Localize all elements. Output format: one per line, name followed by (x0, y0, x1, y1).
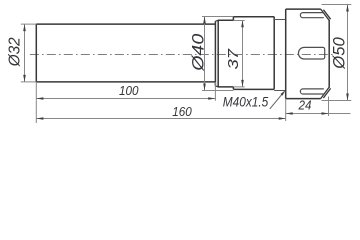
svg-text:Ø32: Ø32 (7, 37, 24, 67)
svg-text:Ø50: Ø50 (331, 36, 349, 69)
nut middle scallop (298, 47, 324, 59)
nut bottom scallop (300, 89, 323, 94)
dim 100 extension lines (36, 82, 215, 101)
dim Ø32 extension lines (21, 24, 37, 82)
dim Ø32 arrows (23, 24, 26, 82)
dim 24 extension line right (328, 97, 330, 117)
thread leader line (270, 92, 284, 109)
dim 100 line (36, 98, 215, 100)
nut top chamfer (321, 9, 331, 20)
dim 37 extension lines (233, 21, 244, 87)
dim 100 arrows (36, 97, 215, 100)
thread section Ø40 outline (233, 17, 274, 90)
svg-text:160: 160 (172, 104, 192, 119)
dim Ø40 arrows (203, 17, 206, 91)
thread neck thin lines (274, 20, 286, 91)
svg-text:24: 24 (298, 99, 312, 113)
nut body outline (286, 9, 330, 99)
dim 160 arrows (36, 117, 285, 120)
ring step chamfer corners (215, 20, 218, 87)
dim Ø40 extension lines (202, 17, 233, 91)
svg-text:Ø40: Ø40 (189, 33, 207, 72)
dim 24 line (286, 113, 351, 115)
dim Ø32 line (24, 24, 26, 82)
tube body Ø32 outline (36, 24, 215, 82)
dim 24 arrows (286, 112, 329, 115)
ring chamfer line (217, 20, 219, 87)
svg-text:37: 37 (226, 48, 242, 70)
dim 37 arrows (241, 20, 244, 87)
thread leader arrow (281, 90, 286, 95)
nut bottom chamfer (321, 87, 331, 98)
dim Ø50 line (347, 5, 349, 101)
dim 160 extension lines (36, 99, 285, 124)
ring Ø37 outline (218, 17, 234, 90)
svg-text:M40x1.5: M40x1.5 (223, 94, 269, 110)
dim 37 line (242, 20, 244, 87)
dim 160 line (36, 118, 285, 120)
ring step face (214, 21, 216, 86)
centerline (30, 54, 335, 56)
svg-text:100: 100 (119, 83, 139, 98)
nut top scallop (300, 13, 323, 18)
dim Ø50 arrows (346, 5, 349, 101)
dim Ø40 line (204, 17, 206, 91)
dim Ø50 extension lines (322, 5, 352, 101)
